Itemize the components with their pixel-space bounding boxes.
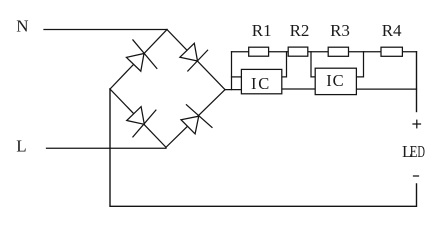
svg-text:L: L	[16, 136, 26, 155]
svg-text:C: C	[258, 74, 269, 93]
svg-text:N: N	[16, 17, 28, 36]
svg-text:R4: R4	[382, 21, 402, 40]
svg-text:R3: R3	[330, 21, 350, 40]
svg-text:I: I	[251, 74, 257, 93]
svg-text:R2: R2	[290, 21, 310, 40]
svg-text:I: I	[326, 71, 332, 90]
svg-text:R1: R1	[252, 21, 272, 40]
svg-text:D: D	[417, 143, 425, 161]
svg-text:C: C	[333, 71, 344, 90]
svg-text:E: E	[410, 144, 418, 162]
